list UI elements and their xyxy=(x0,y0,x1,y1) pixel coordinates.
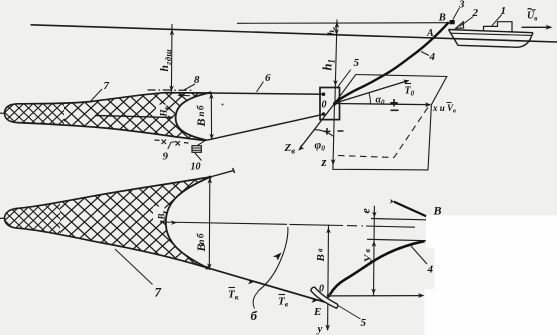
plus-minus signs on x axis xyxy=(390,99,398,107)
ship superstructure xyxy=(484,22,513,32)
angle direction arrowhead on arc xyxy=(272,253,283,262)
svg-text:10: 10 xyxy=(191,162,201,173)
centreline of plan view with arrow xyxy=(160,222,287,224)
vertical plane rectangle xyxy=(333,104,432,170)
x axis with arrow xyxy=(335,104,429,105)
net (side view) outline: top edge xyxy=(17,93,211,104)
codend tail line xyxy=(0,112,5,114)
dimension vertical line e / U_v xyxy=(373,206,376,296)
white-out rectangle xyxy=(425,216,557,335)
svg-text:6: 6 xyxy=(265,72,271,84)
wing tip extension with end tick (plan) xyxy=(210,171,234,177)
svg-text:В: В xyxy=(315,254,327,262)
net (plan view) codend cap xyxy=(5,208,20,228)
angle phi0 arc xyxy=(314,130,333,137)
svg-text:7: 7 xyxy=(155,285,162,300)
wire: water surface line xyxy=(31,25,557,42)
footrope cross marks xyxy=(155,140,189,143)
x axis (plan view) xyxy=(328,295,421,297)
y axis of plan view xyxy=(327,225,330,330)
svg-text:е: е xyxy=(359,208,373,214)
svg-text:б: б xyxy=(196,233,206,238)
upper bridle (line 6) xyxy=(211,93,325,94)
junction blob at O (side view) xyxy=(333,102,337,106)
net (plan view) top edge xyxy=(19,177,210,208)
svg-text:z: z xyxy=(321,155,327,169)
bow bracket item 2 xyxy=(456,22,464,28)
svg-text:0: 0 xyxy=(319,284,324,295)
svg-text:9: 9 xyxy=(163,151,169,163)
ship hull xyxy=(449,30,534,33)
svg-text:п: п xyxy=(196,239,206,244)
hidden edges dashed xyxy=(338,107,429,158)
net (plan view) mesh xyxy=(0,170,214,275)
junction blob at lower wing tip (plan) xyxy=(205,266,208,269)
depressor plate item 5 (plan view) xyxy=(311,287,338,308)
erased line to B with start hook xyxy=(394,202,426,217)
angle nu arc xyxy=(258,227,288,291)
weight box item 10 xyxy=(192,146,201,153)
svg-text:у: у xyxy=(316,323,323,335)
wire: horizontal reference line through point B xyxy=(237,22,450,25)
label 10 with leader xyxy=(195,153,202,161)
svg-text:в: в xyxy=(363,249,372,253)
horizontal plane parallelogram xyxy=(335,75,447,105)
warp cable item 4 (plan view) xyxy=(330,241,425,294)
towing block at B (black square) xyxy=(450,20,455,24)
dimension h_gdsh vertical line xyxy=(170,24,173,93)
svg-text:5: 5 xyxy=(354,57,360,69)
Z_v axis with arrow xyxy=(301,104,335,148)
angle alpha0 arc xyxy=(369,93,371,104)
svg-text:А: А xyxy=(426,28,434,39)
net (side view) outline: bottom edge xyxy=(17,123,206,141)
dimension B_p^b (plan view) xyxy=(208,177,211,270)
svg-text:0: 0 xyxy=(322,100,327,111)
svg-text:В: В xyxy=(438,13,446,24)
svg-text:п: п xyxy=(196,111,206,116)
trawl net (side view) mesh fill xyxy=(0,75,218,145)
warp cable item 4 (side view) xyxy=(336,22,449,101)
net (plan view) bottom edge xyxy=(19,228,207,267)
svg-text:4: 4 xyxy=(427,263,434,275)
svg-text:х и Vв: х и Vв xyxy=(432,103,456,115)
svg-text:У: У xyxy=(363,254,375,263)
junction blob at O (plan view) xyxy=(327,294,331,298)
net mouth arc (plan view) xyxy=(166,177,210,268)
svg-text:в: в xyxy=(316,248,325,252)
reference line lower (plan) xyxy=(367,239,427,240)
svg-text:В: В xyxy=(433,204,442,218)
lower bridle xyxy=(207,114,324,140)
codend tail line (plan) xyxy=(0,217,5,219)
paper speck xyxy=(222,104,224,106)
dash-dot headline level line xyxy=(148,89,192,91)
plus minus near z axis xyxy=(324,128,331,135)
vector T_k arrowhead xyxy=(247,279,255,286)
dimension B_p^b (side view) xyxy=(210,93,212,140)
svg-text:б: б xyxy=(251,308,258,323)
centre axis arrow to mouth vertex (side view) xyxy=(95,116,170,118)
vector T_v arrowhead xyxy=(310,298,318,305)
bridle towing line (plan) xyxy=(207,268,332,305)
reference line at B level (plan) xyxy=(371,219,426,220)
svg-text:7: 7 xyxy=(104,80,110,92)
svg-text:В: В xyxy=(194,118,208,127)
svg-text:4: 4 xyxy=(429,51,436,63)
dimension line h_v / h_1 vertical at x~336 xyxy=(335,20,337,104)
label B_u mouth width (plan view) xyxy=(153,207,165,221)
label N_u mouth height (side view) xyxy=(156,105,167,117)
net mouth arc (side view) xyxy=(176,93,210,141)
net (side view) codend cap xyxy=(5,104,18,123)
tension vector T0 xyxy=(335,81,407,103)
ship speed arrow xyxy=(522,26,550,28)
z axis arrow xyxy=(331,159,336,165)
depressor box item 5 (side view) xyxy=(320,88,340,120)
svg-text:б: б xyxy=(196,105,206,110)
svg-text:E: E xyxy=(313,306,321,318)
svg-text:5: 5 xyxy=(361,317,367,329)
label 9 with hook leader xyxy=(168,142,176,149)
